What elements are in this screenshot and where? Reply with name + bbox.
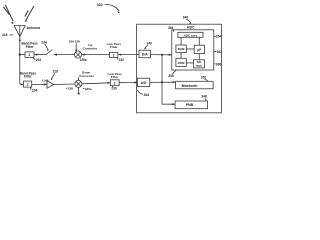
wire mixer1 to LPF1 <box>82 54 110 56</box>
svg-text:2: 2 <box>114 81 116 85</box>
svg-text:358: 358 <box>168 74 174 78</box>
svg-text:Filter: Filter <box>111 75 119 79</box>
arrowhead into LPF2 <box>107 82 110 84</box>
LO stub mixer2 <box>78 88 80 95</box>
svg-text:232: 232 <box>119 58 125 62</box>
svg-text:230: 230 <box>111 87 117 91</box>
mixer U2 down converter <box>75 80 82 87</box>
PMB power module 348 <box>175 101 208 109</box>
svg-text:Bluetooth: Bluetooth <box>182 84 198 88</box>
ref 354 <box>214 35 222 39</box>
arrowhead into LNA <box>44 83 47 85</box>
wire BPF2 to LNA <box>32 83 47 85</box>
svg-text:2: 2 <box>113 53 115 57</box>
svg-text:ROM: ROM <box>178 61 185 65</box>
svg-text:Antenna: Antenna <box>27 26 41 30</box>
A/D converter <box>137 78 149 86</box>
svg-text:364: 364 <box>168 26 174 30</box>
ref 238 <box>66 87 73 91</box>
wire node to BPF1 <box>20 54 25 56</box>
feed arrow up <box>19 38 21 41</box>
arrowhead into BPF1 <box>34 54 37 56</box>
wire mixer2 to LPF2 <box>82 83 110 84</box>
arrowhead into switch <box>54 54 57 56</box>
svg-text:234: 234 <box>32 88 38 92</box>
svg-text:344: 344 <box>144 93 150 97</box>
svg-text:Filter: Filter <box>24 75 33 79</box>
ref 218 <box>2 33 13 37</box>
svg-text:LNA: LNA <box>42 78 49 82</box>
svg-text:2: 2 <box>27 83 29 87</box>
ref 230 <box>111 86 117 91</box>
wire A/D to Bluetooth <box>150 81 176 83</box>
wire D/A to ASIC <box>151 54 172 56</box>
ASIC internal wires <box>180 37 182 45</box>
svg-text:Converter: Converter <box>83 47 98 51</box>
arrowhead into ASIC <box>169 54 172 56</box>
svg-text:230a: 230a <box>85 87 92 91</box>
svg-text:348: 348 <box>201 95 207 99</box>
node <box>161 54 163 56</box>
ADC core <box>178 32 203 37</box>
module box 344 <box>137 24 222 113</box>
svg-text:Filter: Filter <box>26 45 35 49</box>
svg-text:354: 354 <box>216 35 222 39</box>
svg-text:ASIC: ASIC <box>187 26 195 30</box>
RAM <box>176 45 186 53</box>
mixer U1 up converter <box>74 51 81 58</box>
low pass filter 232 <box>107 42 122 58</box>
refs 226 228 <box>69 39 80 43</box>
ref 352 <box>201 76 208 82</box>
wire BPF1 to switch <box>34 54 46 56</box>
arrowhead into mixer1 <box>82 54 85 56</box>
ref 228 <box>51 70 58 80</box>
node <box>161 81 163 83</box>
arrowhead into A/D <box>134 81 137 83</box>
wire LPF1 to D/A <box>118 54 139 56</box>
ref 366 <box>214 62 222 66</box>
svg-text:2: 2 <box>29 53 31 57</box>
wave arrow right <box>25 6 34 22</box>
ref 344 <box>137 90 149 97</box>
svg-text:224: 224 <box>36 58 42 62</box>
D/A converter 240 <box>139 50 151 58</box>
ref 222 <box>30 87 37 92</box>
low pass filter 230 (lower) <box>108 72 123 86</box>
wire switch to mixer1 <box>54 54 75 56</box>
svg-text:218: 218 <box>2 33 8 37</box>
up converter label <box>83 43 98 51</box>
ref 362 <box>214 50 222 54</box>
svg-text:228: 228 <box>75 39 80 43</box>
ref 232 <box>117 58 124 62</box>
S/D logic <box>194 60 205 68</box>
arrowhead into Bluetooth <box>173 81 176 83</box>
arrowhead into LPF1 <box>118 54 121 56</box>
band pass filter 224 <box>21 42 38 58</box>
svg-text:ADC core: ADC core <box>184 33 198 37</box>
svg-text:D/A: D/A <box>142 52 148 56</box>
node (antenna junction) <box>19 53 21 55</box>
svg-text:228: 228 <box>53 70 59 74</box>
band pass filter 222 (lower) <box>20 71 37 87</box>
wire LPF2 to A/D <box>119 82 137 84</box>
svg-text:logic: logic <box>196 64 203 68</box>
arrowhead into BPF2 <box>21 83 24 85</box>
ref 364 <box>168 26 174 32</box>
svg-text:A/D: A/D <box>141 81 147 85</box>
switch 234 <box>41 40 52 54</box>
ref 240 <box>145 42 153 50</box>
Bluetooth module 352 <box>176 81 214 89</box>
svg-text:226: 226 <box>69 39 74 43</box>
arrowhead into PMB <box>172 103 175 105</box>
svg-text:238: 238 <box>68 87 73 91</box>
down converter label <box>79 71 95 81</box>
amplifier LNA 228 <box>42 78 53 88</box>
svg-text:346: 346 <box>183 16 189 20</box>
svg-text:Converter: Converter <box>79 74 94 78</box>
svg-text:RAM: RAM <box>178 47 185 51</box>
svg-text:PMB: PMB <box>186 103 194 107</box>
svg-text:320: 320 <box>97 3 103 7</box>
svg-text:366: 366 <box>216 62 222 66</box>
wave arrow left <box>3 5 14 24</box>
svg-text:352: 352 <box>201 76 207 80</box>
feed wire <box>19 26 21 85</box>
svg-text:226a: 226a <box>80 58 87 62</box>
ref 320 <box>97 3 120 13</box>
ref 358 <box>168 70 175 78</box>
ref 346 <box>183 16 191 25</box>
ref 348 <box>201 95 207 101</box>
ROM <box>176 58 186 66</box>
svg-text:234: 234 <box>41 40 47 44</box>
ref 230a <box>83 87 92 91</box>
ref 224 <box>33 58 41 62</box>
antenna 218 <box>14 26 25 37</box>
LO stub mixer1 <box>75 43 77 51</box>
svg-text:362: 362 <box>217 50 223 54</box>
microprocessor uP <box>194 45 204 53</box>
wire LNA to mixer2 <box>54 83 75 86</box>
ASIC 364 <box>172 30 214 70</box>
svg-text:S/D: S/D <box>197 60 202 64</box>
wire junction to PMB <box>162 55 175 104</box>
svg-text:Filter: Filter <box>110 45 118 49</box>
